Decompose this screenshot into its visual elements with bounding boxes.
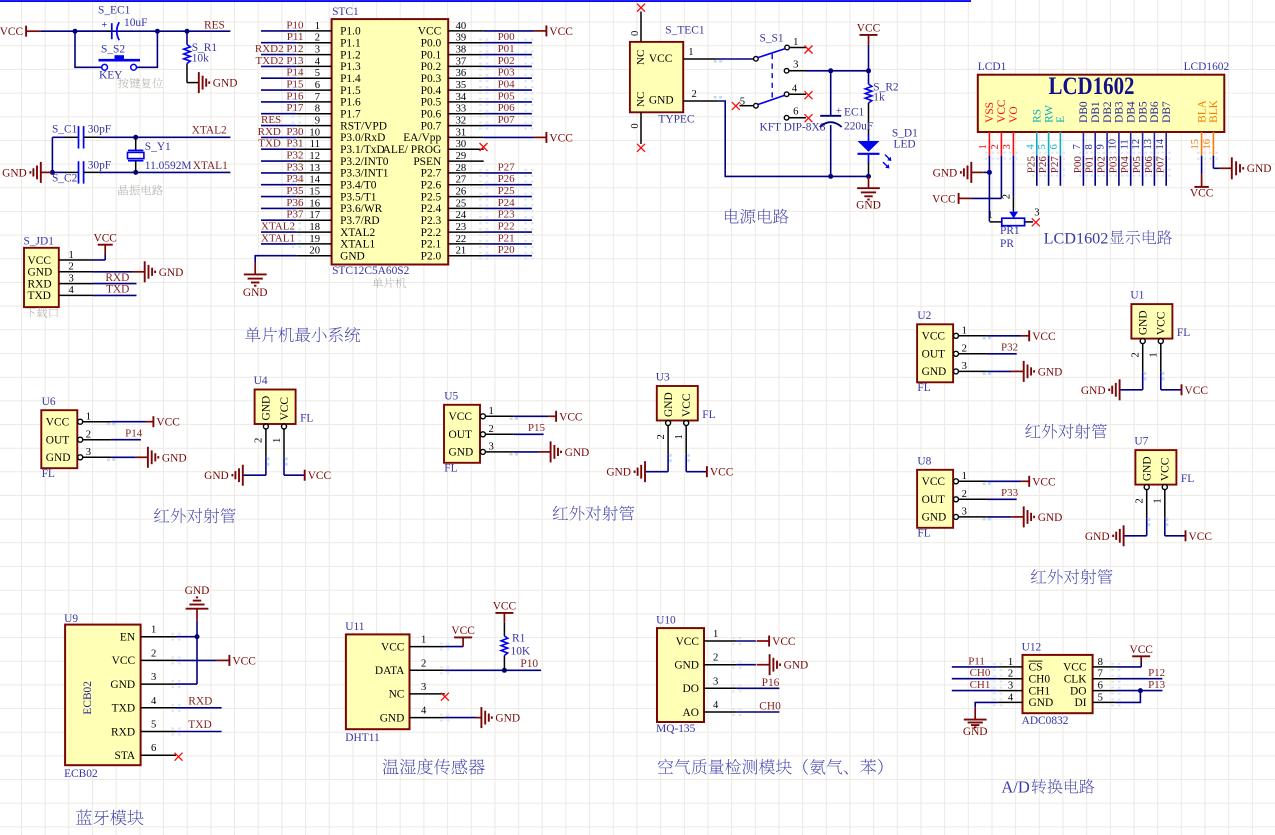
svg-text:GND: GND <box>28 267 53 279</box>
svg-text:RXD P30: RXD P30 <box>258 126 304 138</box>
svg-text:P2.6: P2.6 <box>421 180 442 192</box>
svg-text:P03: P03 <box>498 67 516 79</box>
svg-text:P3.6/WR: P3.6/WR <box>340 203 382 215</box>
svg-text:GND: GND <box>204 470 229 482</box>
svg-text:1: 1 <box>315 21 320 32</box>
svg-text:25: 25 <box>456 198 467 209</box>
svg-text:2: 2 <box>962 489 967 500</box>
svg-text:PR1: PR1 <box>1000 225 1020 237</box>
svg-text:VCC: VCC <box>549 26 572 38</box>
svg-text:10: 10 <box>1108 139 1119 150</box>
svg-text:U7: U7 <box>1134 436 1148 448</box>
svg-text:EN: EN <box>120 632 135 644</box>
svg-text:CH0: CH0 <box>970 667 991 679</box>
svg-text:2: 2 <box>151 648 156 659</box>
svg-text:XTAL1: XTAL1 <box>261 232 295 244</box>
svg-text:TXD: TXD <box>106 284 129 296</box>
svg-text:DB1: DB1 <box>1090 101 1102 123</box>
svg-text:CLK: CLK <box>1064 674 1088 686</box>
svg-text:XTAL2: XTAL2 <box>261 221 295 233</box>
svg-text:U3: U3 <box>656 372 670 384</box>
svg-text:P3.1/TxD: P3.1/TxD <box>340 144 385 156</box>
svg-text:P24: P24 <box>498 197 516 209</box>
svg-text:RS: RS <box>1032 109 1044 123</box>
svg-text:34: 34 <box>456 92 467 103</box>
svg-text:8: 8 <box>1084 144 1095 149</box>
svg-text:P3.4/T0: P3.4/T0 <box>340 180 377 192</box>
svg-text:OUT: OUT <box>922 349 945 361</box>
svg-text:1: 1 <box>69 250 74 261</box>
svg-text:P3.3/INT1: P3.3/INT1 <box>340 168 389 180</box>
svg-text:U11: U11 <box>345 621 364 633</box>
svg-text:4: 4 <box>151 696 157 707</box>
svg-text:2: 2 <box>1002 194 1013 199</box>
svg-text:GND: GND <box>495 713 520 725</box>
svg-text:2: 2 <box>713 653 718 664</box>
svg-text:VCC: VCC <box>46 417 69 429</box>
svg-text:VCC: VCC <box>710 467 733 479</box>
svg-text:P32: P32 <box>1001 341 1018 353</box>
svg-text:P00: P00 <box>1072 156 1084 174</box>
svg-text:3: 3 <box>315 45 320 56</box>
svg-text:NC: NC <box>635 92 647 107</box>
svg-text:2: 2 <box>656 434 667 439</box>
svg-text:VCC: VCC <box>449 411 472 423</box>
svg-text:P04: P04 <box>498 79 516 91</box>
svg-text:VCC: VCC <box>279 397 291 420</box>
svg-text:11: 11 <box>1119 139 1130 149</box>
svg-text:P10: P10 <box>520 658 538 670</box>
svg-text:LED: LED <box>894 139 916 151</box>
svg-text:20: 20 <box>309 246 320 257</box>
svg-text:LCD1: LCD1 <box>978 61 1007 73</box>
svg-text:1: 1 <box>272 438 283 443</box>
svg-text:3: 3 <box>962 507 967 518</box>
svg-text:GND: GND <box>340 251 365 263</box>
svg-text:VCC: VCC <box>1190 188 1213 200</box>
svg-text:U10: U10 <box>656 615 676 627</box>
svg-text:14: 14 <box>1155 138 1166 149</box>
svg-text:FL: FL <box>917 382 930 394</box>
svg-text:P0.2: P0.2 <box>421 61 442 73</box>
svg-text:E: E <box>1055 116 1067 123</box>
svg-text:10uF: 10uF <box>124 17 147 29</box>
svg-text:VCC: VCC <box>1032 331 1055 343</box>
svg-text:17: 17 <box>309 210 320 221</box>
svg-text:P07: P07 <box>498 114 516 126</box>
svg-text:P05: P05 <box>498 90 516 102</box>
svg-text:P16: P16 <box>762 677 780 689</box>
svg-text:VCC: VCC <box>1189 531 1212 543</box>
svg-text:U9: U9 <box>64 613 78 625</box>
svg-text:35: 35 <box>456 80 467 91</box>
svg-text:NC: NC <box>635 50 647 65</box>
svg-text:P0.4: P0.4 <box>421 85 442 97</box>
svg-text:1: 1 <box>962 471 967 482</box>
svg-text:P04: P04 <box>1119 156 1131 174</box>
svg-text:1: 1 <box>713 629 718 640</box>
svg-text:DB3: DB3 <box>1114 101 1126 123</box>
svg-text:P01: P01 <box>498 43 515 55</box>
svg-text:GND: GND <box>110 679 135 691</box>
svg-text:37: 37 <box>456 56 467 67</box>
svg-text:1: 1 <box>962 326 967 337</box>
svg-text:2: 2 <box>86 430 91 441</box>
svg-text:GND: GND <box>162 452 187 464</box>
svg-text:28: 28 <box>456 163 467 174</box>
svg-text:VCC: VCC <box>932 193 955 205</box>
svg-text:PR: PR <box>1000 238 1014 250</box>
svg-text:P0.1: P0.1 <box>421 49 442 61</box>
svg-text:P06: P06 <box>1143 156 1155 174</box>
svg-text:P23: P23 <box>498 209 516 221</box>
svg-text:P36: P36 <box>286 197 304 209</box>
svg-text:11: 11 <box>310 139 320 150</box>
svg-text:OUT: OUT <box>922 494 945 506</box>
svg-text:VCC: VCC <box>676 636 699 648</box>
svg-text:P0.5: P0.5 <box>421 97 442 109</box>
svg-text:GND: GND <box>674 660 699 672</box>
svg-text:P22: P22 <box>498 221 515 233</box>
svg-text:GND: GND <box>649 95 674 107</box>
svg-text:P32: P32 <box>286 150 303 162</box>
svg-text:TXD: TXD <box>28 290 51 302</box>
svg-text:DB5: DB5 <box>1137 101 1149 123</box>
svg-text:STC12C5A60S2: STC12C5A60S2 <box>332 265 410 277</box>
svg-text:+: + <box>102 20 108 31</box>
svg-text:1: 1 <box>1149 352 1160 357</box>
svg-text:220uF: 220uF <box>844 121 873 133</box>
svg-text:1: 1 <box>151 625 156 636</box>
svg-text:P25: P25 <box>498 185 516 197</box>
svg-text:3: 3 <box>962 361 967 372</box>
svg-text:TXD P31: TXD P31 <box>258 138 303 150</box>
svg-text:P1.4: P1.4 <box>340 73 361 85</box>
svg-text:GND: GND <box>243 287 268 299</box>
svg-text:2: 2 <box>962 344 967 355</box>
svg-text:4: 4 <box>315 56 321 67</box>
svg-text:P15: P15 <box>528 422 546 434</box>
svg-text:P11: P11 <box>287 31 304 43</box>
svg-text:U12: U12 <box>1022 641 1042 653</box>
svg-text:2: 2 <box>69 262 74 273</box>
svg-text:DB6: DB6 <box>1149 101 1161 123</box>
svg-text:DB7: DB7 <box>1161 101 1173 123</box>
svg-text:P2.2: P2.2 <box>421 227 442 239</box>
svg-text:GND: GND <box>1085 531 1110 543</box>
svg-text:FL: FL <box>444 463 457 475</box>
svg-text:P0.3: P0.3 <box>421 73 442 85</box>
svg-text:1: 1 <box>86 412 91 423</box>
svg-text:P1.3: P1.3 <box>340 61 361 73</box>
svg-text:GND: GND <box>2 167 27 179</box>
svg-text:U1: U1 <box>1130 290 1144 302</box>
svg-text:RES: RES <box>204 20 225 32</box>
svg-text:VCC: VCC <box>308 470 331 482</box>
svg-text:2: 2 <box>1135 498 1146 503</box>
svg-text:1: 1 <box>688 47 693 58</box>
svg-text:VCC: VCC <box>1156 312 1168 335</box>
svg-text:S_C2: S_C2 <box>52 173 78 185</box>
svg-text:VCC: VCC <box>1160 458 1172 481</box>
svg-text:FL: FL <box>1181 473 1194 485</box>
svg-text:DATA: DATA <box>375 665 405 677</box>
svg-text:7: 7 <box>315 92 320 103</box>
svg-text:P27: P27 <box>1049 156 1061 174</box>
svg-text:15: 15 <box>1190 139 1201 150</box>
svg-text:VCC: VCC <box>996 99 1008 122</box>
svg-text:P33: P33 <box>1001 487 1019 499</box>
svg-text:VCC: VCC <box>1185 385 1208 397</box>
svg-text:3: 3 <box>1002 144 1013 149</box>
svg-text:VCC: VCC <box>772 636 795 648</box>
svg-text:3: 3 <box>86 447 91 458</box>
svg-text:3: 3 <box>421 682 426 693</box>
svg-text:DO: DO <box>683 683 699 695</box>
svg-text:GND: GND <box>1038 512 1063 524</box>
svg-text:ADC0832: ADC0832 <box>1022 715 1069 727</box>
svg-text:6: 6 <box>151 743 156 754</box>
svg-text:P33: P33 <box>286 161 304 173</box>
svg-text:S_S2: S_S2 <box>101 43 125 55</box>
svg-text:GND: GND <box>963 726 988 738</box>
svg-text:27: 27 <box>456 175 467 186</box>
svg-text:26: 26 <box>456 187 467 198</box>
svg-text:9: 9 <box>1096 144 1107 149</box>
svg-text:P02: P02 <box>498 55 515 67</box>
svg-text:VO: VO <box>1008 106 1020 122</box>
svg-text:RES: RES <box>261 114 281 126</box>
svg-text:VCC: VCC <box>232 655 255 667</box>
svg-text:4: 4 <box>69 285 75 296</box>
svg-text:CH1: CH1 <box>970 679 991 691</box>
svg-text:2: 2 <box>1131 352 1142 357</box>
svg-text:U2: U2 <box>917 310 931 322</box>
svg-text:4: 4 <box>713 700 719 711</box>
svg-text:P1.0: P1.0 <box>340 26 361 38</box>
svg-text:P16: P16 <box>286 90 304 102</box>
svg-text:ECB02: ECB02 <box>64 768 98 780</box>
svg-text:2: 2 <box>315 33 320 44</box>
svg-text:13: 13 <box>1143 139 1154 150</box>
svg-text:VCC: VCC <box>451 625 474 637</box>
svg-text:XTAL2: XTAL2 <box>192 125 227 137</box>
svg-text:P13: P13 <box>1148 679 1166 691</box>
svg-text:1: 1 <box>674 434 685 439</box>
svg-text:GND: GND <box>1142 456 1154 481</box>
svg-text:P2.7: P2.7 <box>421 168 442 180</box>
svg-text:GND: GND <box>856 200 881 212</box>
svg-text:10k: 10k <box>192 53 209 65</box>
svg-text:3: 3 <box>69 273 74 284</box>
svg-text:GND: GND <box>449 447 474 459</box>
svg-text:GND: GND <box>606 467 631 479</box>
svg-text:CH1: CH1 <box>1029 685 1051 697</box>
svg-text:1: 1 <box>987 210 992 221</box>
svg-text:VCC: VCC <box>649 53 672 65</box>
svg-text:6: 6 <box>793 106 798 117</box>
svg-text:P06: P06 <box>498 102 516 114</box>
svg-text:GND: GND <box>213 78 238 90</box>
svg-text:GND: GND <box>933 167 958 179</box>
svg-text:DI: DI <box>1074 697 1086 709</box>
svg-text:1: 1 <box>978 144 989 149</box>
svg-text:P10: P10 <box>286 19 304 31</box>
svg-text:DB4: DB4 <box>1126 101 1138 123</box>
svg-text:P03: P03 <box>1107 156 1119 174</box>
svg-text:P11: P11 <box>968 655 985 667</box>
svg-text:10K: 10K <box>511 646 531 658</box>
svg-text:A/D: A/D <box>1001 778 1030 797</box>
svg-text:STA: STA <box>114 750 135 762</box>
svg-text:14: 14 <box>309 175 320 186</box>
svg-text:P07: P07 <box>1155 156 1167 174</box>
svg-text:P00: P00 <box>498 31 516 43</box>
svg-text:P1.6: P1.6 <box>340 97 361 109</box>
svg-text:3: 3 <box>151 672 156 683</box>
svg-text:GND: GND <box>46 452 71 464</box>
svg-text:39: 39 <box>456 33 467 44</box>
svg-text:GND: GND <box>185 585 210 597</box>
svg-text:1: 1 <box>1153 498 1164 503</box>
svg-text:U4: U4 <box>254 375 268 387</box>
svg-text:12: 12 <box>309 151 320 162</box>
svg-text:P2.3: P2.3 <box>421 215 442 227</box>
svg-text:P0.0: P0.0 <box>421 38 442 50</box>
svg-text:4: 4 <box>1025 144 1036 150</box>
svg-text:XTAL1: XTAL1 <box>340 239 375 251</box>
svg-text:P3.7/RD: P3.7/RD <box>340 215 380 227</box>
svg-text:P3.5/T1: P3.5/T1 <box>340 191 377 203</box>
svg-text:P2.4: P2.4 <box>421 203 442 215</box>
svg-text:GND: GND <box>1138 310 1150 335</box>
svg-text:GND: GND <box>1247 163 1272 175</box>
svg-text:ALE/ PROG: ALE/ PROG <box>383 144 442 156</box>
svg-text:GND: GND <box>784 660 809 672</box>
svg-text:TXD2 P13: TXD2 P13 <box>256 55 304 67</box>
svg-text:PSEN: PSEN <box>413 156 441 168</box>
svg-text:VCC: VCC <box>28 255 51 267</box>
svg-text:VCC: VCC <box>0 26 23 38</box>
svg-text:VCC: VCC <box>922 476 945 488</box>
svg-text:VCC: VCC <box>681 394 693 417</box>
svg-text:P2.0: P2.0 <box>421 251 442 263</box>
svg-text:DB0: DB0 <box>1078 101 1090 123</box>
svg-text:5: 5 <box>1037 144 1048 149</box>
svg-text:6: 6 <box>315 80 320 91</box>
svg-text:GND: GND <box>565 447 590 459</box>
svg-text:7: 7 <box>1072 144 1083 149</box>
svg-text:8: 8 <box>315 104 320 115</box>
svg-text:GND: GND <box>380 712 405 724</box>
svg-text:13: 13 <box>309 163 320 174</box>
svg-text:P26: P26 <box>498 173 516 185</box>
svg-text:16: 16 <box>309 198 320 209</box>
svg-text:5: 5 <box>151 720 156 731</box>
svg-text:LCD1602: LCD1602 <box>1184 61 1230 73</box>
svg-text:XTAL1: XTAL1 <box>193 160 228 172</box>
svg-text:DB2: DB2 <box>1102 101 1114 123</box>
svg-text:VCC: VCC <box>549 132 572 144</box>
svg-text:VCC: VCC <box>1032 476 1055 488</box>
svg-text:19: 19 <box>309 234 320 245</box>
svg-text:9: 9 <box>315 116 320 127</box>
svg-text:DHT11: DHT11 <box>345 732 380 744</box>
svg-text:18: 18 <box>309 222 320 233</box>
svg-text:30: 30 <box>456 139 467 150</box>
svg-text:FL: FL <box>300 413 313 425</box>
svg-text:RXD2 P12: RXD2 P12 <box>255 43 304 55</box>
svg-text:1: 1 <box>1008 657 1013 668</box>
svg-text:4: 4 <box>792 84 798 95</box>
svg-text:VCC: VCC <box>1063 662 1086 674</box>
svg-text:FL: FL <box>917 528 930 540</box>
svg-text:10: 10 <box>309 127 320 138</box>
svg-text:U5: U5 <box>444 391 458 403</box>
svg-text:KFT DIP-8X8: KFT DIP-8X8 <box>760 121 826 133</box>
svg-text:R1: R1 <box>512 633 526 645</box>
svg-text:RXD: RXD <box>111 726 135 738</box>
svg-text:GND: GND <box>1029 697 1054 709</box>
svg-text:GND: GND <box>261 396 273 421</box>
svg-text:CH0: CH0 <box>759 701 781 713</box>
svg-text:S_Y1: S_Y1 <box>145 141 171 153</box>
svg-text:VCC: VCC <box>922 331 945 343</box>
svg-text:TYPEC: TYPEC <box>658 113 694 125</box>
svg-text:8: 8 <box>1098 657 1103 668</box>
svg-text:38: 38 <box>456 45 467 56</box>
svg-text:RXD: RXD <box>28 278 52 290</box>
svg-text:15: 15 <box>309 187 320 198</box>
svg-text:GND: GND <box>159 267 184 279</box>
svg-text:21: 21 <box>456 246 467 257</box>
svg-text:FL: FL <box>42 468 55 480</box>
svg-text:3: 3 <box>1008 681 1013 692</box>
svg-text:VCC: VCC <box>1129 644 1152 656</box>
svg-text:RXD: RXD <box>105 272 129 284</box>
svg-text:AO: AO <box>683 707 699 719</box>
svg-text:GND: GND <box>922 366 947 378</box>
svg-text:KEY: KEY <box>99 70 122 82</box>
svg-text:24: 24 <box>456 210 467 221</box>
svg-text:VSS: VSS <box>984 102 996 123</box>
svg-text:U8: U8 <box>917 456 931 468</box>
svg-text:P27: P27 <box>498 161 516 173</box>
svg-text:7: 7 <box>1098 669 1103 680</box>
svg-text:VCC: VCC <box>156 417 179 429</box>
svg-text:P2.5: P2.5 <box>421 191 442 203</box>
svg-text:VCC: VCC <box>381 641 404 653</box>
svg-text:P15: P15 <box>286 79 304 91</box>
svg-text:P01: P01 <box>1084 156 1096 173</box>
svg-text:TXD: TXD <box>112 703 135 715</box>
svg-text:P35: P35 <box>286 185 304 197</box>
svg-text:OUT: OUT <box>449 429 472 441</box>
svg-text:VCC: VCC <box>559 411 582 423</box>
svg-text:12: 12 <box>1131 139 1142 150</box>
svg-text:P1.7: P1.7 <box>340 109 361 121</box>
svg-text:P3.0/RxD: P3.0/RxD <box>340 132 385 144</box>
svg-text:+: + <box>836 106 842 117</box>
svg-text:FL: FL <box>1177 327 1190 339</box>
svg-text:CS: CS <box>1029 662 1043 674</box>
svg-text:2: 2 <box>254 438 265 443</box>
svg-text:RXD: RXD <box>188 695 212 707</box>
svg-text:33: 33 <box>456 104 467 115</box>
svg-text:4: 4 <box>1008 692 1014 703</box>
svg-text:2: 2 <box>990 144 1001 149</box>
svg-text:S_JD1: S_JD1 <box>24 235 55 247</box>
